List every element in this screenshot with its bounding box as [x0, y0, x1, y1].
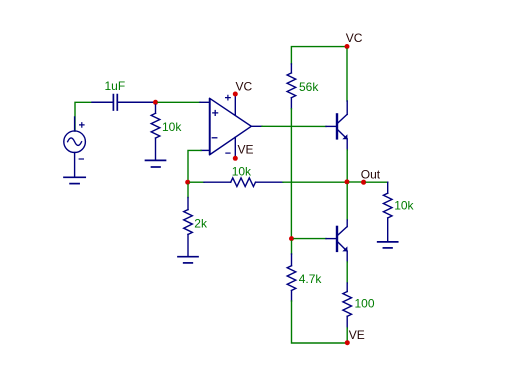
node dot op-amp VC [233, 92, 238, 97]
resistor 10k load [383, 182, 392, 242]
wire between output dots [350, 181, 362, 183]
svg-text:VC: VC [346, 31, 363, 45]
wire op-amp output to Q1 base [262, 125, 326, 127]
wire Out to load resistor [366, 181, 388, 183]
op-amp output pin [251, 125, 262, 127]
svg-text:1uF: 1uF [105, 79, 126, 93]
op-amp power - marker [226, 152, 230, 154]
ground below R1 [146, 160, 166, 167]
svg-text:10k: 10k [394, 198, 414, 212]
ground below 2k [178, 257, 198, 263]
wire 100 down to VE dot [346, 328, 348, 341]
resistor 10k feedback [204, 178, 283, 187]
svg-text:4.7k: 4.7k [299, 272, 323, 286]
wire base node down to 4.7k [291, 241, 293, 254]
wire input corner from source to capacitor [75, 102, 92, 131]
op-amp U1 [200, 99, 251, 155]
capacitor 1uF [92, 95, 154, 110]
svg-text:Out: Out [361, 167, 381, 181]
op-amp input - marker [212, 137, 217, 139]
resistor 10k input (R1) [151, 105, 160, 160]
resistor 4.7k [287, 254, 296, 301]
svg-text:10k: 10k [162, 120, 182, 134]
node dot VC rail [345, 44, 350, 49]
wire feedback node down to 2k [187, 185, 189, 198]
wire VC rail [291, 47, 344, 64]
svg-text:10k: 10k [232, 165, 252, 179]
wire junction to op-amp input [158, 101, 200, 103]
node dot op-amp VE [233, 156, 238, 161]
resistor 100 [343, 283, 352, 328]
node dot output junction [345, 179, 350, 184]
wire 56k down to Q2 base node [290, 109, 292, 237]
resistor 56k [287, 64, 296, 109]
transistor Q2 (NPN) [326, 220, 347, 262]
wire output node down to Q2 collector [346, 184, 348, 220]
svg-text:56k: 56k [299, 80, 319, 94]
svg-text:VC: VC [236, 80, 253, 94]
svg-text:VE: VE [349, 328, 365, 342]
voltage source VG1 [64, 117, 86, 177]
wire Q2 emitter to 100 resistor [346, 262, 348, 283]
wire VC dot down to Q1 collector [346, 49, 348, 101]
svg-text:VE: VE [238, 142, 254, 156]
wire feedback resistor to output node [283, 181, 345, 183]
node dot feedback junction [185, 180, 190, 185]
svg-text:2k: 2k [194, 217, 208, 231]
wire Q1 emitter to output node [346, 150, 348, 180]
ground below load [378, 242, 398, 248]
wire feedback node to 10k feedback resistor [190, 181, 204, 183]
node dot input junction [153, 100, 158, 105]
op-amp VE pin [234, 137, 236, 157]
wire 4.7k to VE rail [292, 301, 345, 343]
op-amp power + marker [226, 95, 231, 100]
transistor Q1 (NPN) [326, 101, 347, 150]
op-amp input + marker [213, 111, 218, 116]
wire inverting input to feedback node [188, 150, 201, 180]
resistor 2k [184, 198, 193, 257]
node dot VE rail [345, 340, 350, 345]
op-amp VC pin [234, 96, 236, 116]
node dot Q2 base junction [289, 236, 294, 241]
wire base node to Q2 base [294, 238, 326, 240]
node dot Out label tap [361, 180, 366, 185]
svg-text:100: 100 [355, 296, 375, 310]
ground below source [64, 177, 85, 183]
